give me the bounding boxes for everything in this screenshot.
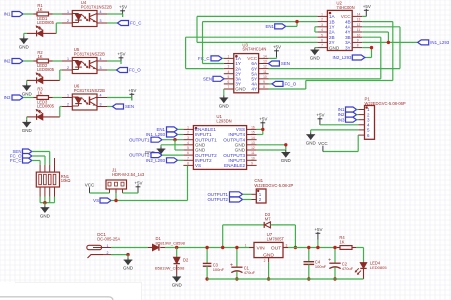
ground U3 xyxy=(219,89,230,109)
connector P1 xyxy=(358,96,406,139)
wire U2.4B-U3.4Y xyxy=(268,22,392,89)
junction xyxy=(307,246,310,281)
wire GND2 DC1 xyxy=(111,254,128,256)
svg-text:GND: GND xyxy=(22,91,33,96)
svg-text:10: 10 xyxy=(263,75,267,79)
wire U2.3Y-IN2_L293 xyxy=(362,48,371,58)
wire J1.2-U1.VS xyxy=(116,165,188,200)
svg-text:14: 14 xyxy=(251,136,255,140)
svg-text:FC_O: FC_O xyxy=(129,68,141,73)
svg-text:2: 2 xyxy=(67,19,69,23)
svg-text:GND: GND xyxy=(281,158,292,163)
svg-text:IN3: IN3 xyxy=(4,95,11,100)
svg-text:IN2_L293: IN2_L293 xyxy=(146,158,166,163)
input flag IN2 xyxy=(4,59,34,64)
svg-text:IN2: IN2 xyxy=(4,59,11,64)
ground U1 right xyxy=(257,143,292,163)
svg-text:100nF: 100nF xyxy=(315,264,327,269)
flag IN1_L293 U1 xyxy=(146,132,183,137)
junction xyxy=(295,20,298,23)
svg-text:10kΩ: 10kΩ xyxy=(61,178,71,183)
optocoupler U4 xyxy=(62,0,112,27)
resistor R4 xyxy=(337,235,356,249)
wire bottom rail xyxy=(207,278,363,280)
svg-text:4: 4 xyxy=(100,10,102,14)
svg-text:470uF: 470uF xyxy=(342,266,354,271)
svg-text:+5V: +5V xyxy=(119,5,127,10)
svg-text:GND: GND xyxy=(40,213,51,218)
junction xyxy=(205,246,208,281)
wire U2.3B-U3.5Y xyxy=(268,37,380,79)
svg-text:8: 8 xyxy=(187,162,189,166)
svg-text:GND: GND xyxy=(22,128,33,133)
svg-text:FC_C: FC_C xyxy=(10,158,21,163)
LED LED2 xyxy=(27,63,60,83)
svg-text:SEN: SEN xyxy=(125,104,134,109)
resistor R1 xyxy=(33,3,52,16)
wire xyxy=(53,60,63,62)
svg-text:100nF: 100nF xyxy=(213,267,225,272)
svg-text:VS: VS xyxy=(195,163,201,168)
junction xyxy=(173,138,176,141)
svg-text:6: 6 xyxy=(228,80,230,84)
junction xyxy=(333,246,336,281)
diode D2 xyxy=(155,248,189,275)
junction xyxy=(370,46,373,49)
svg-text:+5V: +5V xyxy=(134,181,142,186)
svg-text:GND: GND xyxy=(123,266,134,271)
junction xyxy=(221,246,297,249)
+5V xyxy=(107,5,127,18)
svg-text:2: 2 xyxy=(67,102,69,106)
svg-text:1: 1 xyxy=(67,93,69,97)
svg-text:11: 11 xyxy=(263,70,267,74)
IC U1 L293DN xyxy=(183,114,256,169)
svg-text:OUT: OUT xyxy=(271,245,281,251)
svg-text:B5819W_C8598: B5819W_C8598 xyxy=(155,266,185,271)
svg-text:5: 5 xyxy=(228,75,230,79)
optocoupler U5 xyxy=(62,47,107,74)
flag EN1 top xyxy=(265,22,297,30)
svg-text:1K: 1K xyxy=(37,7,42,12)
svg-text:PC817X1NSZ2B: PC817X1NSZ2B xyxy=(74,88,105,93)
svg-text:SEN: SEN xyxy=(281,61,290,66)
svg-text:+5V: +5V xyxy=(363,4,371,9)
svg-text:GND: GND xyxy=(329,45,340,50)
svg-text:1: 1 xyxy=(321,13,323,17)
svg-text:2: 2 xyxy=(107,251,109,255)
wire xyxy=(111,247,148,249)
wire xyxy=(24,33,27,36)
svg-text:10: 10 xyxy=(251,156,255,160)
ground P1.5 xyxy=(306,130,359,145)
svg-text:15: 15 xyxy=(251,131,255,135)
capacitor C1 xyxy=(230,248,256,280)
svg-text:DC-005-25A: DC-005-25A xyxy=(97,237,120,242)
svg-text:12: 12 xyxy=(251,146,255,150)
flag IN2_L293 U1 xyxy=(146,158,183,163)
svg-text:LED0805: LED0805 xyxy=(370,265,387,270)
svg-text:L293DN: L293DN xyxy=(216,119,231,124)
LED LED1 xyxy=(27,16,57,36)
+5V P1.4 xyxy=(316,113,358,126)
+5V U3 xyxy=(269,45,281,59)
capacitor C4 xyxy=(304,248,327,280)
svg-text:VCC: VCC xyxy=(318,141,328,146)
input flag FC_C U3 xyxy=(198,56,224,61)
svg-text:1K: 1K xyxy=(37,91,42,96)
svg-text:7: 7 xyxy=(228,85,230,89)
input flag SEN U3-3A xyxy=(203,76,224,81)
svg-text:1: 1 xyxy=(245,243,247,247)
svg-text:B5819W_C8598: B5819W_C8598 xyxy=(156,240,186,245)
svg-text:4Y: 4Y xyxy=(251,87,258,92)
svg-text:IN2_L293: IN2_L293 xyxy=(332,55,352,60)
svg-text:1K: 1K xyxy=(339,239,344,244)
flag IN1 P1 xyxy=(338,107,359,112)
junction xyxy=(126,253,129,256)
junction xyxy=(387,41,390,44)
flag FC_O left xyxy=(10,154,45,166)
connector DC1 xyxy=(87,232,121,258)
svg-text:GND: GND xyxy=(310,56,321,61)
svg-text:3: 3 xyxy=(228,65,230,69)
flag SEN left xyxy=(12,149,49,165)
wire RN1 bus xyxy=(40,202,54,204)
flag FC_C left xyxy=(10,158,40,165)
svg-text:+5V: +5V xyxy=(128,88,136,93)
svg-text:FC_C: FC_C xyxy=(198,56,209,61)
junction xyxy=(175,246,178,249)
IC U2 74HC00N xyxy=(317,0,362,50)
svg-text:4: 4 xyxy=(228,70,230,74)
resistor network RN1 xyxy=(36,158,70,203)
svg-text:10: 10 xyxy=(357,33,361,37)
svg-text:1: 1 xyxy=(107,244,109,248)
wire U7 gnd xyxy=(268,262,270,279)
svg-text:1: 1 xyxy=(67,57,69,61)
regulator U7 LM7805T xyxy=(245,232,288,263)
ground xyxy=(22,120,33,133)
wire xyxy=(60,70,62,80)
svg-text:EN1: EN1 xyxy=(265,24,274,29)
svg-text:IN1_L293: IN1_L293 xyxy=(430,40,450,45)
svg-text:ENABLE2: ENABLE2 xyxy=(224,163,245,168)
svg-text:1: 1 xyxy=(228,55,230,59)
LED LED3 xyxy=(27,100,60,120)
svg-text:LED0805: LED0805 xyxy=(37,67,55,72)
svg-text:7: 7 xyxy=(187,156,189,160)
svg-text:IN3: IN3 xyxy=(338,117,345,122)
flag SEN xyxy=(107,104,134,109)
diode D1 xyxy=(148,236,186,251)
svg-text:470uF: 470uF xyxy=(244,270,256,275)
junction xyxy=(114,199,117,202)
junction xyxy=(316,246,319,249)
svg-text:9: 9 xyxy=(357,39,359,43)
svg-text:8: 8 xyxy=(263,85,265,89)
svg-text:8: 8 xyxy=(357,44,359,48)
svg-text:OUTPUT1: OUTPUT1 xyxy=(129,137,150,142)
svg-text:PC817X1NSZ2B: PC817X1NSZ2B xyxy=(81,4,112,9)
svg-text:+5V: +5V xyxy=(259,117,267,122)
svg-text:1: 1 xyxy=(67,10,69,14)
svg-text:+5V: +5V xyxy=(117,52,125,57)
svg-text:3: 3 xyxy=(100,19,102,23)
flag FC_C xyxy=(107,21,141,26)
flag VS xyxy=(93,198,116,203)
resistor R3 xyxy=(33,87,52,100)
flag IN3 P1 xyxy=(338,117,359,122)
svg-text:IN1: IN1 xyxy=(4,12,11,17)
svg-text:9: 9 xyxy=(263,80,265,84)
svg-text:14: 14 xyxy=(357,13,361,17)
svg-text:PC817X1NSZ2B: PC817X1NSZ2B xyxy=(74,51,105,56)
+5V U2 xyxy=(362,4,371,17)
ground DC1 xyxy=(123,255,134,271)
+5V xyxy=(107,52,126,65)
svg-text:FC_O: FC_O xyxy=(285,82,297,87)
input flag IN3 xyxy=(4,95,34,100)
wire xyxy=(53,97,63,99)
input flag IN1 xyxy=(4,12,34,17)
wire U2.4Y down xyxy=(362,32,388,42)
svg-text:11: 11 xyxy=(357,28,361,32)
svg-text:LM7805T: LM7805T xyxy=(267,236,285,241)
capacitor C3 xyxy=(203,248,225,280)
VCC J1 xyxy=(85,183,110,193)
svg-text:FC_C: FC_C xyxy=(130,21,141,26)
svg-text:13: 13 xyxy=(357,18,361,22)
wire xyxy=(60,107,62,117)
svg-text:12: 12 xyxy=(357,23,361,27)
svg-text:1K: 1K xyxy=(37,54,42,59)
flag IN2 P1 xyxy=(338,112,359,117)
svg-text:GND: GND xyxy=(219,104,230,109)
svg-text:6: 6 xyxy=(187,151,189,155)
LED LED4 xyxy=(355,261,387,280)
wire out rail xyxy=(288,247,337,249)
svg-text:2: 2 xyxy=(321,18,323,22)
svg-text:4: 4 xyxy=(321,28,323,32)
svg-text:HDR-M-2.54_1x3: HDR-M-2.54_1x3 xyxy=(112,172,145,177)
svg-text:3: 3 xyxy=(100,66,102,70)
wire xyxy=(56,23,62,33)
svg-text:LED0805: LED0805 xyxy=(37,20,55,25)
svg-text:3: 3 xyxy=(100,102,102,106)
flag OUTPUT2 CN1 xyxy=(208,197,252,202)
flag IN2_L293 right xyxy=(332,55,364,60)
wire U2.1Y-2A loop xyxy=(315,27,318,32)
flag FC_O xyxy=(107,68,141,73)
flag IN1_L293 xyxy=(362,40,450,45)
svg-text:3: 3 xyxy=(187,136,189,140)
svg-text:13: 13 xyxy=(263,60,267,64)
svg-text:5: 5 xyxy=(187,146,189,150)
flag OUTPUT1 U1 xyxy=(129,137,183,142)
svg-text:2: 2 xyxy=(264,259,266,263)
svg-text:VS: VS xyxy=(93,198,99,203)
svg-text:+5V: +5V xyxy=(273,45,281,50)
svg-text:OUTPUT2: OUTPUT2 xyxy=(208,197,229,202)
svg-text:9: 9 xyxy=(251,162,253,166)
svg-text:4: 4 xyxy=(100,57,102,61)
svg-text:LED0805: LED0805 xyxy=(37,104,55,109)
+5V out xyxy=(314,227,322,248)
wire net3 U3.2A-U2.2B xyxy=(186,37,318,68)
flag EN1 U1 xyxy=(156,127,183,132)
flag OUTPUT1 CN1 xyxy=(208,192,252,197)
junction xyxy=(267,277,270,280)
wire xyxy=(53,13,63,15)
IC U3 SN74HC14N xyxy=(224,42,269,93)
svg-text:M7: M7 xyxy=(265,217,271,222)
svg-text:WJ2EDGVC-5.08-2P: WJ2EDGVC-5.08-2P xyxy=(254,183,293,188)
optocoupler U6 xyxy=(62,83,107,110)
svg-text:VCC: VCC xyxy=(85,183,95,188)
svg-text:74HC00N: 74HC00N xyxy=(336,5,354,10)
svg-text:GND: GND xyxy=(235,87,246,92)
wire net1 U2.1A-U2.2Y xyxy=(197,16,317,42)
svg-text:GND: GND xyxy=(172,283,183,288)
svg-text:2: 2 xyxy=(228,60,230,64)
svg-text:SN74HC14N: SN74HC14N xyxy=(242,47,266,52)
ground D2 xyxy=(172,275,183,288)
svg-text:GND: GND xyxy=(306,140,317,145)
svg-text:GND: GND xyxy=(19,44,30,49)
ground U2 xyxy=(310,48,321,61)
header J1 xyxy=(106,168,145,193)
svg-text:5: 5 xyxy=(321,33,323,37)
wire xyxy=(26,117,28,120)
svg-text:13: 13 xyxy=(251,141,255,145)
flag SEN U3-6A xyxy=(268,61,290,66)
+5V J1 xyxy=(123,181,143,194)
flag FC_O U3-4A xyxy=(268,81,296,86)
svg-text:SEN: SEN xyxy=(203,77,212,82)
ground RN1 xyxy=(40,203,51,219)
svg-text:+5V: +5V xyxy=(316,113,324,118)
svg-text:3: 3 xyxy=(321,23,323,27)
flag OUTPUT2 U1 xyxy=(129,153,183,158)
svg-text:4: 4 xyxy=(100,93,102,97)
svg-text:12: 12 xyxy=(263,65,267,69)
svg-text:2: 2 xyxy=(67,66,69,70)
svg-text:4: 4 xyxy=(187,141,189,145)
svg-text:VIN: VIN xyxy=(257,245,266,251)
svg-text:2: 2 xyxy=(187,131,189,135)
wire main rail xyxy=(165,247,288,249)
svg-text:D2: D2 xyxy=(183,257,189,262)
wire net2 U3.1Y-U2.1B xyxy=(203,22,318,64)
ui overlay bottom-left xyxy=(0,282,142,300)
wire xyxy=(356,248,364,262)
+5V U1 VSS xyxy=(257,117,268,135)
ground U1 left xyxy=(145,145,184,155)
ground xyxy=(22,83,33,96)
+5V xyxy=(107,88,136,101)
svg-text:14: 14 xyxy=(263,55,267,59)
svg-text:3: 3 xyxy=(286,243,288,247)
svg-text:+5V: +5V xyxy=(314,227,322,232)
wire U2.4A-U3.6Y xyxy=(268,27,400,69)
wire xyxy=(26,80,28,83)
svg-text:6: 6 xyxy=(321,39,323,43)
wire OUTPUT1-GND2 xyxy=(175,140,183,150)
svg-text:11: 11 xyxy=(251,151,255,155)
svg-text:1: 1 xyxy=(187,126,189,130)
VCC P1.6 xyxy=(318,135,358,151)
junction xyxy=(43,201,46,204)
svg-text:16: 16 xyxy=(251,126,255,130)
resistor R2 xyxy=(33,50,52,63)
junction xyxy=(261,128,264,131)
junction xyxy=(235,246,238,281)
capacitor C2 xyxy=(328,248,354,280)
ground xyxy=(19,36,30,49)
connector CN1 xyxy=(252,178,294,203)
svg-text:3Y: 3Y xyxy=(345,45,352,50)
diode D3 xyxy=(223,212,296,247)
svg-text:7: 7 xyxy=(321,44,323,48)
